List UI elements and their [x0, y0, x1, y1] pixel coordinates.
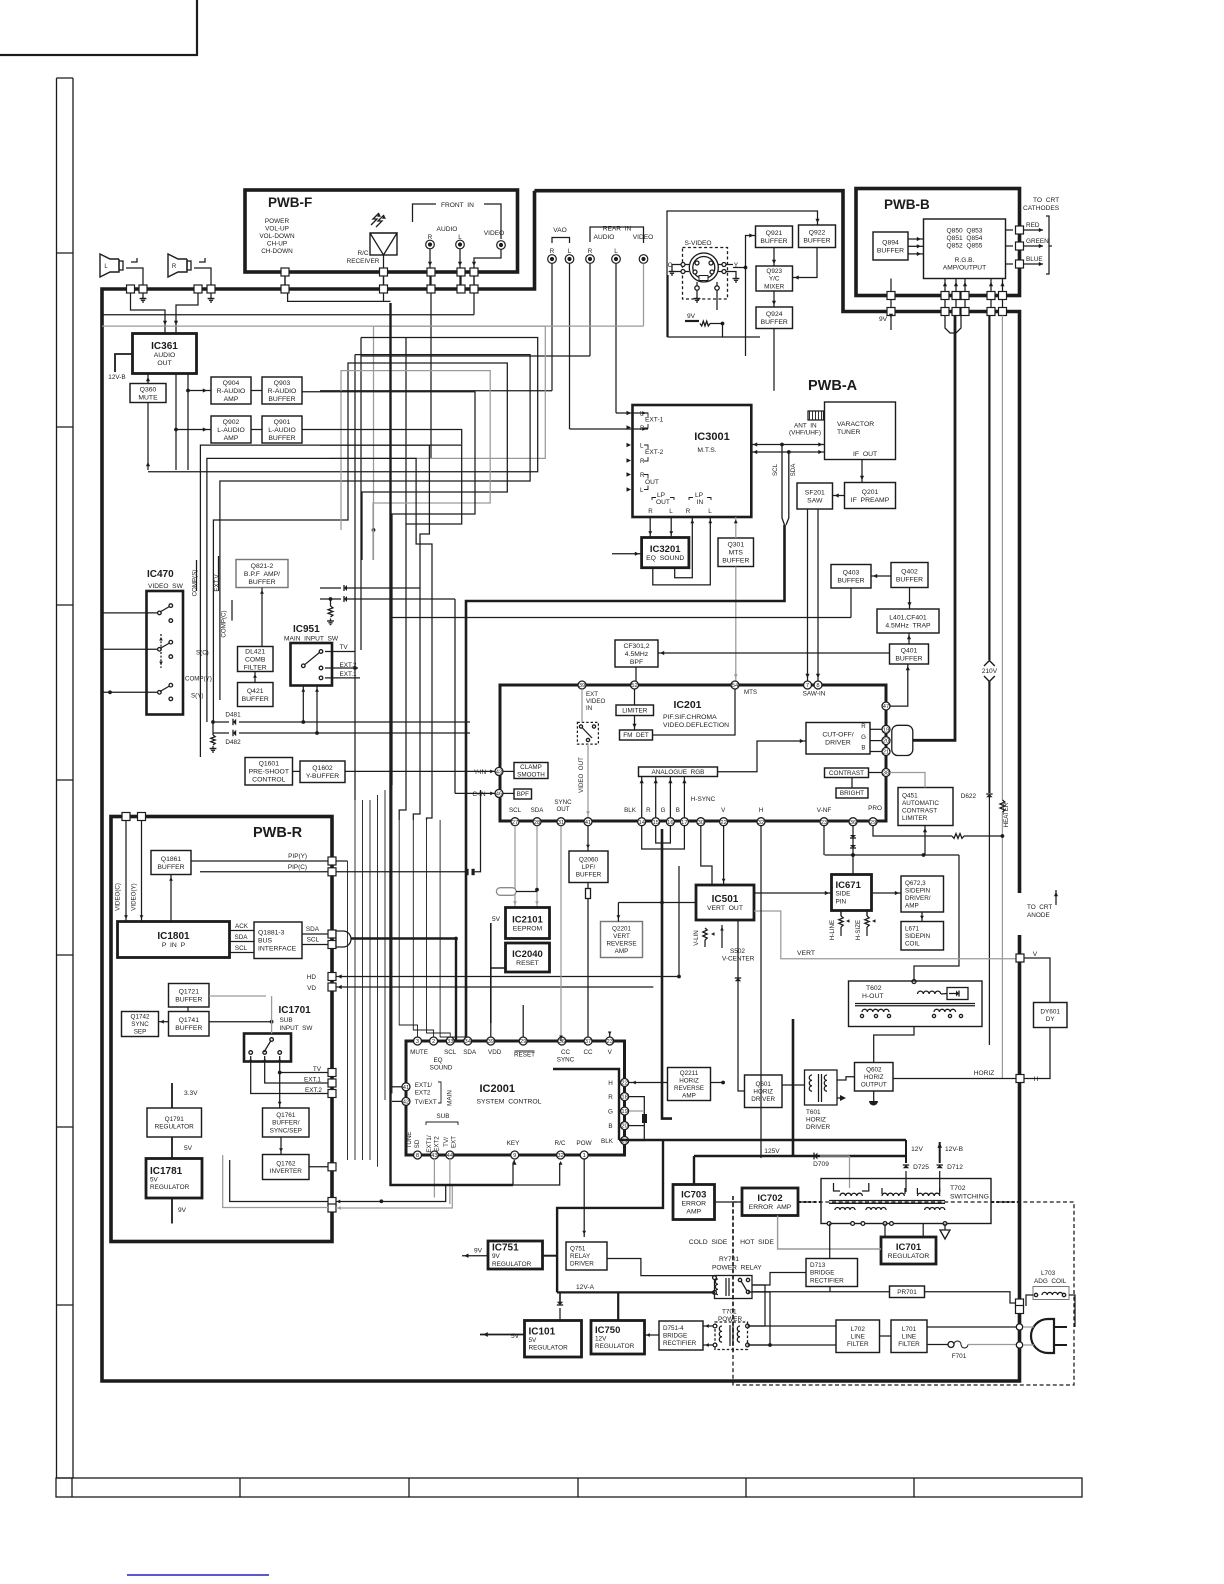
svg-text:OUT: OUT: [556, 806, 569, 813]
svg-text:R-AUDIO: R-AUDIO: [268, 388, 297, 395]
Q751 relay driver: [566, 1242, 607, 1270]
Q403 wire down to row: [850, 588, 852, 618]
page title block (top-left): [0, 0, 197, 55]
svg-text:T702: T702: [950, 1185, 966, 1192]
svg-text:IC951: IC951: [293, 624, 320, 635]
pin32 H line down: [741, 826, 761, 1056]
svg-text:LP: LP: [657, 492, 666, 499]
svg-text:Q360: Q360: [140, 386, 157, 393]
svg-text:PR701: PR701: [897, 1289, 917, 1296]
V connector square: [1016, 954, 1024, 962]
Q904 R-audio amp: [211, 377, 251, 404]
varactor tuner: [825, 402, 896, 460]
svg-text:TO CRT: TO CRT: [1027, 904, 1052, 911]
svg-text:7: 7: [806, 683, 809, 689]
hot wiring D713-PR701: [830, 1273, 890, 1292]
IC3001 input arrows: [627, 411, 632, 415]
Q1762 out to border: [328, 1163, 336, 1171]
IC501 to Q2211 column: [679, 978, 688, 1068]
IC201 to IC2001 vertical wires: [514, 826, 516, 908]
D713 bridge rectifier: [806, 1259, 858, 1287]
svg-text:PRE-SHOOT: PRE-SHOOT: [249, 769, 289, 776]
svg-text:SIDEPIN: SIDEPIN: [905, 933, 931, 940]
svg-text:AUDIO: AUDIO: [437, 226, 458, 233]
svg-text:R-AUDIO: R-AUDIO: [217, 388, 246, 395]
210V line: [988, 316, 990, 661]
svg-text:29: 29: [520, 1039, 526, 1045]
svg-text:41: 41: [585, 820, 591, 826]
IC3201 EQ sound: [642, 538, 689, 568]
svg-text:12V-A: 12V-A: [576, 1284, 595, 1291]
C-IN wire: [454, 599, 456, 793]
svg-text:IN: IN: [586, 705, 592, 712]
S-VIDEO dashed box: [683, 248, 728, 300]
svg-text:V: V: [1033, 951, 1038, 958]
svg-text:ANT IN: ANT IN: [794, 423, 817, 430]
IC951 bottom input arrows: [302, 686, 304, 722]
svg-text:HOT SIDE: HOT SIDE: [740, 1239, 774, 1246]
svg-text:IC703: IC703: [681, 1189, 706, 1200]
svg-text:L671: L671: [905, 926, 920, 933]
svg-text:R/C: R/C: [554, 1140, 565, 1147]
svg-text:LINE: LINE: [851, 1334, 865, 1341]
svg-text:BUFFER: BUFFER: [803, 238, 830, 245]
DY601 deflection yoke: [1034, 1003, 1068, 1028]
svg-text:AUDIO: AUDIO: [594, 234, 615, 241]
Q451 automatic contrast limiter: [898, 788, 953, 826]
svg-text:VIDEO: VIDEO: [633, 234, 654, 241]
svg-text:B: B: [676, 807, 680, 814]
svg-text:BUFFER: BUFFER: [896, 576, 923, 583]
PWB-F board outline: [245, 190, 518, 272]
svg-text:Q2201: Q2201: [612, 926, 631, 933]
svg-text:D751-4: D751-4: [663, 1325, 684, 1332]
svg-text:RY701: RY701: [719, 1256, 739, 1263]
svg-text:HD: HD: [307, 974, 317, 981]
svg-text:BUS: BUS: [258, 938, 272, 945]
svg-text:VD: VD: [307, 985, 316, 992]
border gap at CRT anode: [1016, 893, 1024, 935]
svg-text:SCL: SCL: [772, 463, 779, 476]
IC751 9V regulator: [488, 1241, 543, 1269]
svg-text:22: 22: [720, 820, 726, 826]
svg-text:D725: D725: [913, 1164, 929, 1171]
Q201 IF preamp: [845, 483, 896, 509]
svg-text:BUFFER: BUFFER: [895, 655, 922, 662]
svg-text:POW: POW: [576, 1140, 592, 1147]
Q601 feed lines: [701, 920, 745, 1091]
S-VIDEO connector circle: [689, 253, 718, 282]
svg-text:37: 37: [585, 1039, 591, 1045]
PR701: [890, 1286, 925, 1298]
svg-text:42: 42: [403, 1100, 409, 1106]
svg-text:31: 31: [558, 820, 564, 826]
svg-text:REGULATOR: REGULATOR: [888, 1253, 930, 1260]
svg-text:D713: D713: [810, 1262, 826, 1269]
Q602 horiz output: [855, 1063, 894, 1092]
IC101 5V regulator: [525, 1321, 582, 1358]
Q1761 buffer/sync/sep: [263, 1108, 310, 1137]
svg-text:23: 23: [821, 820, 827, 826]
svg-text:EXT-1: EXT-1: [645, 417, 664, 424]
svg-text:SUB: SUB: [280, 1017, 293, 1024]
svg-text:CONTRAST: CONTRAST: [829, 770, 864, 777]
svg-text:Q1762: Q1762: [276, 1160, 296, 1167]
Q922 buffer: [799, 225, 836, 248]
svg-text:SD: SD: [414, 1139, 421, 1148]
antenna symbol: [808, 411, 824, 420]
IC2001 bottom pins: [414, 1151, 422, 1159]
tuner IF out wire: [861, 460, 863, 483]
svg-text:R.G.B.: R.G.B.: [955, 257, 975, 264]
svg-text:AMP: AMP: [224, 435, 239, 442]
svg-text:39: 39: [488, 1039, 494, 1045]
svg-text:SWITCHING: SWITCHING: [950, 1194, 989, 1201]
svg-text:FILTER: FILTER: [244, 664, 267, 671]
svg-text:L-AUDIO: L-AUDIO: [268, 427, 296, 434]
svg-text:21: 21: [883, 750, 889, 756]
svg-text:INVERTER: INVERTER: [270, 1168, 303, 1175]
svg-text:AMP: AMP: [615, 948, 629, 955]
svg-text:EQ SOUND: EQ SOUND: [646, 555, 684, 562]
Q1601 pre-shoot: [245, 758, 293, 786]
left nested bundle: [102, 314, 474, 316]
svg-text:MTS: MTS: [729, 550, 744, 557]
LP loopback wires: [649, 517, 651, 538]
Q402 buffer: [891, 563, 928, 588]
wire bundle from jacks: [429, 285, 431, 289]
svg-text:BUFFER: BUFFER: [248, 579, 275, 586]
Q1721 buffer: [169, 984, 210, 1008]
power path D713 to relay: [752, 1273, 806, 1286]
svg-text:S-VIDEO: S-VIDEO: [684, 240, 711, 247]
svg-text:T701: T701: [722, 1309, 737, 1316]
svg-text:SAW: SAW: [807, 497, 823, 504]
svg-text:19: 19: [621, 1109, 627, 1115]
CRT cathodes bracket: [1046, 216, 1049, 274]
svg-text:H: H: [759, 807, 763, 814]
svg-text:D709: D709: [813, 1161, 829, 1168]
svg-text:OUTPUT: OUTPUT: [861, 1082, 887, 1089]
svg-text:PIF.SIF.CHROMA: PIF.SIF.CHROMA: [663, 714, 717, 721]
Y feed to Q921: [744, 266, 748, 270]
svg-text:SYNC: SYNC: [557, 1057, 575, 1064]
svg-text:16: 16: [667, 820, 673, 826]
svg-text:V-NF: V-NF: [817, 807, 832, 814]
front jack R: [426, 240, 435, 249]
svg-text:BRIDGE: BRIDGE: [810, 1270, 835, 1277]
svg-text:BUFFER: BUFFER: [175, 997, 202, 1004]
svg-text:41: 41: [403, 1085, 409, 1091]
svg-text:FRONT IN: FRONT IN: [441, 202, 474, 209]
svg-text:IC470: IC470: [147, 569, 174, 580]
svg-text:Q924: Q924: [766, 311, 783, 318]
front jack wires: [429, 249, 431, 285]
svg-text:43: 43: [431, 1153, 437, 1159]
Q923 to Q924: [773, 291, 775, 307]
svg-text:DY601: DY601: [1040, 1008, 1060, 1015]
svg-text:IF PREAMP: IF PREAMP: [851, 497, 890, 504]
svg-text:5V: 5V: [184, 1145, 193, 1152]
svg-text:FM DET: FM DET: [623, 732, 649, 739]
hot side dashed boundary box: [733, 1202, 1074, 1385]
svg-text:BPF: BPF: [630, 659, 643, 666]
IC2001 left pins: [402, 1083, 410, 1091]
svg-text:Q1741: Q1741: [179, 1017, 200, 1024]
svg-text:SUB: SUB: [436, 1113, 449, 1120]
svg-text:T601: T601: [806, 1109, 821, 1116]
svg-text:Q901: Q901: [274, 419, 291, 426]
svg-text:Q201: Q201: [862, 489, 879, 496]
svg-text:L-AUDIO: L-AUDIO: [217, 427, 245, 434]
RGB lines up into PWB-B: [943, 282, 947, 286]
svg-text:17: 17: [681, 820, 687, 826]
svg-text:PWB-F: PWB-F: [268, 195, 312, 210]
svg-text:ADG COIL: ADG COIL: [1034, 1278, 1067, 1285]
svg-text:H-SYNC: H-SYNC: [691, 796, 716, 803]
I2C thick vertical: [466, 525, 785, 1041]
svg-text:BUFFER: BUFFER: [722, 558, 749, 565]
svg-text:L: L: [669, 508, 673, 515]
svg-text:PWB-B: PWB-B: [884, 197, 930, 212]
speaker R: [168, 254, 187, 277]
svg-text:PIP(Y): PIP(Y): [288, 853, 307, 860]
svg-text:Q903: Q903: [274, 380, 291, 387]
svg-text:BUFFER/: BUFFER/: [272, 1120, 300, 1127]
T602 transformer bottom taps wiring: [723, 1019, 862, 1056]
svg-text:R: R: [172, 264, 177, 270]
svg-text:Q301: Q301: [727, 542, 744, 549]
svg-text:Q894: Q894: [882, 239, 899, 246]
svg-text:AMP: AMP: [224, 396, 239, 403]
SAW to IC201 pins 7/8: [807, 509, 809, 681]
svg-text:Q1721: Q1721: [179, 989, 200, 996]
svg-text:Q602: Q602: [866, 1067, 882, 1074]
plug: [1031, 1319, 1054, 1353]
svg-text:12V: 12V: [595, 1336, 607, 1343]
IC2040 RESET: [506, 943, 550, 972]
svg-text:20: 20: [621, 1124, 627, 1130]
loop under PWB-B: [945, 316, 961, 334]
svg-text:RELAY: RELAY: [570, 1253, 591, 1260]
svg-text:ANALOGUE RGB: ANALOGUE RGB: [652, 769, 705, 776]
IC2101 EEPROM: [506, 908, 550, 939]
PWB-B board outline: [856, 189, 1020, 296]
Q924 buffer: [756, 307, 793, 329]
svg-text:COMP(C): COMP(C): [221, 610, 228, 637]
svg-text:IC1801: IC1801: [157, 931, 190, 942]
svg-text:H: H: [608, 1080, 613, 1087]
pill connector: [496, 888, 516, 896]
svg-text:Q601: Q601: [755, 1081, 771, 1088]
speaker connector squares: [127, 285, 135, 293]
svg-text:H-SIZE: H-SIZE: [855, 920, 862, 940]
svg-text:R: R: [861, 723, 866, 730]
36 37 23 feeds: [561, 1030, 563, 1037]
svg-text:MUTE: MUTE: [410, 1049, 428, 1056]
Q421 buffer: [238, 683, 274, 707]
svg-text:REGULATOR: REGULATOR: [492, 1261, 532, 1268]
Q921 to Q923: [773, 248, 775, 267]
svg-text:C-IN: C-IN: [472, 791, 486, 798]
svg-text:L: L: [640, 443, 644, 450]
VAO jack R: [548, 255, 557, 264]
svg-text:RESET: RESET: [516, 960, 539, 967]
svg-text:SIDE: SIDE: [836, 891, 851, 898]
svg-text:Y-IN: Y-IN: [474, 769, 487, 776]
svg-text:Q2211: Q2211: [680, 1070, 699, 1077]
svg-text:RED: RED: [1026, 222, 1040, 229]
PWB-R bottom exit loops: [328, 1198, 336, 1206]
Q602 collector to T602: [874, 1027, 914, 1063]
svg-text:Q851 Q854: Q851 Q854: [947, 235, 983, 242]
svg-text:Y/C: Y/C: [769, 276, 780, 283]
I2C bus junction to PWB-R: [454, 937, 458, 941]
svg-text:IC671: IC671: [836, 880, 862, 891]
svg-text:G: G: [661, 807, 666, 814]
T702 to down wiring: [945, 1224, 1020, 1254]
svg-text:18: 18: [621, 1095, 627, 1101]
Q902 L-audio amp: [211, 416, 251, 443]
svg-text:CH-DOWN: CH-DOWN: [261, 248, 293, 255]
L702 line filter: [836, 1320, 880, 1353]
svg-text:MTS: MTS: [744, 689, 757, 696]
svg-text:EXT1/: EXT1/: [426, 1135, 433, 1152]
PWB-R top connector squares: [122, 813, 130, 821]
svg-text:D622: D622: [961, 793, 977, 800]
pin30 line to IC501: [701, 826, 712, 885]
IC702 gray link to IC701: [778, 1216, 881, 1250]
rear jack L: [612, 255, 621, 264]
svg-text:Q850 Q853: Q850 Q853: [947, 228, 983, 235]
blue underline (link): [127, 1574, 269, 1576]
svg-text:GREEN: GREEN: [1026, 238, 1049, 245]
IC3001 MTS block: [633, 405, 752, 517]
Q301 MTS buffer: [718, 538, 754, 567]
svg-text:2: 2: [432, 1039, 435, 1045]
svg-text:EXT: EXT: [586, 691, 598, 698]
svg-text:VOL-UP: VOL-UP: [265, 226, 289, 233]
left margin strip: [56, 78, 58, 1478]
svg-text:L: L: [568, 248, 572, 255]
svg-text:EEPROM: EEPROM: [513, 925, 543, 932]
svg-text:VIDEO: VIDEO: [586, 698, 605, 705]
rear jack R: [586, 255, 595, 264]
svg-text:9V: 9V: [492, 1253, 501, 1260]
Q894 buffer: [873, 232, 908, 260]
svg-text:LIMITER: LIMITER: [622, 708, 648, 715]
svg-text:33: 33: [447, 1039, 453, 1045]
bus D-connector: [336, 931, 351, 947]
D709: [814, 1153, 817, 1160]
svg-text:HORIZ: HORIZ: [806, 1117, 826, 1124]
svg-text:Q401: Q401: [901, 647, 918, 654]
Q921 buffer: [756, 226, 793, 248]
svg-text:MAIN: MAIN: [447, 1090, 454, 1106]
IC1801 P in P: [118, 922, 230, 958]
svg-text:HORIZ: HORIZ: [864, 1074, 884, 1081]
jack column drops: [551, 264, 553, 391]
Q922 to Q923: [793, 248, 818, 278]
svg-text:19: 19: [883, 727, 889, 733]
svg-text:G: G: [861, 734, 866, 741]
svg-text:L701: L701: [902, 1326, 917, 1333]
svg-text:TO CRT: TO CRT: [1033, 197, 1059, 204]
PWB-R right vertical bundle: [347, 861, 349, 1160]
svg-text:CONTROL: CONTROL: [252, 777, 285, 784]
svg-text:BRIDGE: BRIDGE: [663, 1333, 687, 1340]
Q601 horiz driver: [745, 1075, 783, 1108]
svg-text:IF OUT: IF OUT: [853, 451, 877, 458]
svg-text:OUT: OUT: [656, 499, 670, 506]
C route: [668, 275, 723, 337]
Q1741 buffer: [169, 1012, 210, 1037]
svg-text:L: L: [640, 487, 644, 494]
svg-text:210V: 210V: [982, 668, 998, 675]
SCL SDA funnel: [782, 445, 785, 526]
CLAMP SMOOTH: [514, 763, 548, 779]
IC501 vert out: [696, 885, 754, 920]
svg-text:22: 22: [621, 1081, 627, 1087]
svg-text:52: 52: [631, 683, 637, 689]
svg-text:9V: 9V: [474, 1248, 483, 1255]
svg-text:DRIVER/: DRIVER/: [905, 895, 931, 902]
BPF: [514, 789, 532, 799]
IC470 input feeds: [196, 560, 344, 591]
svg-text:MIXER: MIXER: [764, 283, 785, 290]
PWB-F to bus drop wires: [284, 276, 286, 285]
svg-text:BLK: BLK: [601, 1138, 614, 1145]
svg-text:9V: 9V: [687, 313, 696, 320]
svg-text:Q451: Q451: [902, 792, 918, 799]
svg-text:Q1742: Q1742: [131, 1014, 150, 1021]
bundle turns into IC2001 top: [399, 820, 417, 1037]
svg-text:DRIVER: DRIVER: [751, 1096, 775, 1103]
svg-text:LIMITER: LIMITER: [902, 815, 928, 822]
svg-text:KEY: KEY: [507, 1140, 521, 1147]
IC2001 top pins: [414, 1037, 422, 1045]
Y-IN wire: [345, 770, 495, 772]
svg-text:REAR IN: REAR IN: [603, 226, 632, 233]
svg-text:1: 1: [583, 1153, 586, 1159]
svg-text:REGULATOR: REGULATOR: [155, 1124, 195, 1131]
SF201 SAW: [797, 483, 833, 509]
relay to T701: [748, 1285, 766, 1326]
svg-text:SIDEPIN: SIDEPIN: [905, 888, 931, 895]
Q401 to pin47 wire: [886, 664, 908, 706]
Q1742 sync sep: [122, 1012, 159, 1037]
svg-text:BPF: BPF: [517, 791, 529, 798]
svg-text:VERT: VERT: [797, 950, 815, 957]
svg-text:HEATER: HEATER: [1003, 802, 1010, 827]
pins19-21 rounded bracket: [892, 725, 913, 755]
svg-text:3: 3: [416, 1039, 419, 1045]
svg-text:34: 34: [464, 1039, 471, 1045]
svg-text:SCL: SCL: [444, 1049, 457, 1056]
svg-text:SMOOTH: SMOOTH: [517, 772, 545, 779]
svg-text:TUNE: TUNE: [406, 1132, 413, 1149]
heater line gray: [1001, 316, 1003, 801]
Q1602 y-buffer: [300, 761, 345, 783]
Q2201 vert reverse amp: [601, 922, 643, 958]
HD/VD long lines: [612, 976, 679, 978]
svg-text:L: L: [708, 508, 712, 515]
R/C receiver drop: [383, 293, 385, 301]
svg-text:FILTER: FILTER: [847, 1341, 869, 1348]
column bridges down to PWB-R comb: [391, 604, 393, 785]
svg-text:SDA: SDA: [790, 463, 797, 477]
L701 line filter: [891, 1320, 927, 1353]
